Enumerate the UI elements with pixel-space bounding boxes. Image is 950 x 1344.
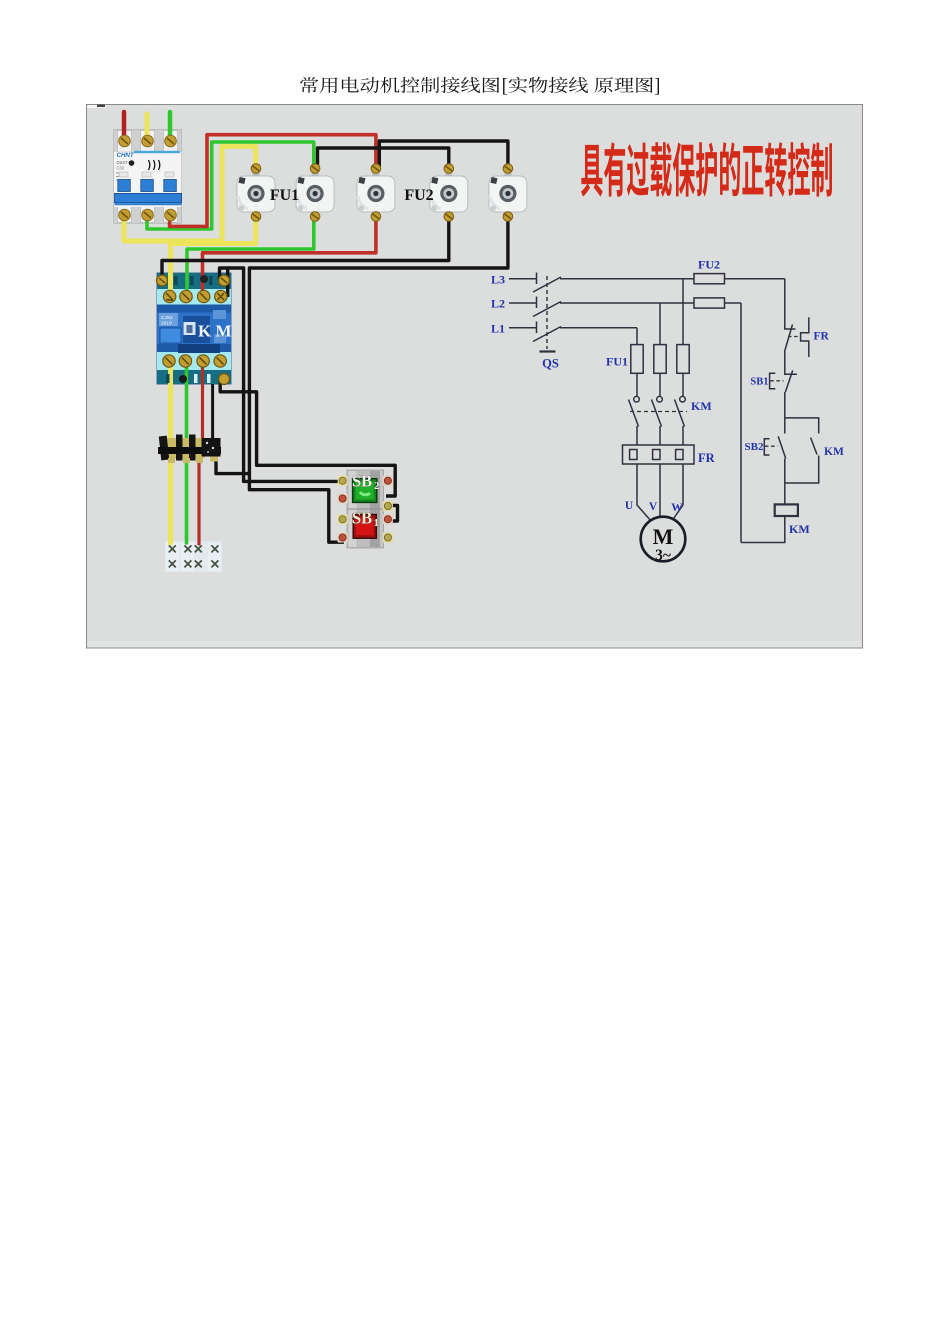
fuse FU1-2 body xyxy=(296,173,334,213)
breaker switch handles xyxy=(115,172,182,204)
wires KM contacts to FR xyxy=(636,426,638,464)
wire L2 control return xyxy=(740,303,742,543)
wire L2 row xyxy=(560,302,741,304)
wire black contactor top jumper staple xyxy=(220,268,228,297)
fuse FU2-3 screws xyxy=(503,164,513,222)
svg-text:SB: SB xyxy=(352,509,372,528)
svg-text:SB: SB xyxy=(352,472,372,491)
switch QS pole L1 xyxy=(536,322,538,334)
branch to KM aux contact xyxy=(785,418,819,434)
wire L1 drop xyxy=(636,328,638,345)
contactor bottom strip details xyxy=(166,374,230,385)
svg-text:1: 1 xyxy=(374,517,380,529)
switch QS linkage xyxy=(546,276,548,349)
stop button SB1 red xyxy=(352,509,379,539)
breaker top terminal screws xyxy=(119,135,177,147)
push button station panel xyxy=(347,470,384,548)
wire L1 row xyxy=(560,327,637,329)
fuse FU2-2 body xyxy=(430,173,468,213)
svg-text:SB2: SB2 xyxy=(745,441,764,453)
wire L1 lead xyxy=(509,327,536,329)
circuit breaker QF body xyxy=(114,130,182,224)
wire red fuse FU2-1 bottom to contactor KM terminal 3 xyxy=(203,213,376,297)
svg-text:3~: 3~ xyxy=(655,547,671,564)
fuse FU1-2 screws xyxy=(310,164,320,222)
start button SB2 green xyxy=(352,472,380,503)
svg-text:FU2: FU2 xyxy=(404,187,433,204)
wire green fuse FU1-2 bottom to contactor KM terminal 2 xyxy=(187,213,314,297)
wire L3 drop xyxy=(682,279,684,345)
button terminals xyxy=(338,476,393,543)
wire L3 lead xyxy=(509,278,536,280)
svg-text:SB1: SB1 xyxy=(750,377,768,388)
svg-text:M: M xyxy=(653,524,674,549)
motor M circle xyxy=(641,517,686,562)
svg-text:L3: L3 xyxy=(491,273,505,287)
wire green contactor to terminal block xyxy=(185,365,189,543)
svg-text:C60: C60 xyxy=(117,166,125,171)
fuse FU2 schematic top xyxy=(694,274,725,284)
fuse FU2 schematic bottom xyxy=(694,298,725,308)
page title 常用电动机控制接线图[实物接线 原理图] xyxy=(300,77,659,95)
panel bottom light strip xyxy=(87,641,862,648)
wire black contactor bottom to relay box xyxy=(211,384,214,440)
button SB1 stop xyxy=(770,373,776,388)
coil KM xyxy=(775,504,798,516)
svg-text:FU2: FU2 xyxy=(698,258,720,272)
terminal block XT xyxy=(165,541,222,572)
red banner 具有过载保护的正转控制 xyxy=(581,142,832,197)
contact KM auxiliary xyxy=(811,438,817,455)
thermal relay FR heater box xyxy=(623,445,695,464)
switch QS pole L2 xyxy=(536,297,538,309)
wire yellow contactor to terminal block xyxy=(168,365,173,543)
contactor second row screws xyxy=(163,290,227,302)
svg-text:K M: K M xyxy=(198,322,232,341)
image panel background xyxy=(87,105,863,649)
wire black fuse FU2-2 bottom to contactor coil terminal xyxy=(162,213,449,281)
wire L2 drop xyxy=(659,303,661,345)
wire red contactor to terminal block xyxy=(199,365,203,544)
wire green breaker T2 to fuse FU1-2 top xyxy=(147,142,314,229)
svg-text:CHNT: CHNT xyxy=(117,152,135,159)
wire SB2 to coil xyxy=(784,458,786,504)
svg-text:KM: KM xyxy=(824,446,844,458)
wire black contactor to start button SB2 left xyxy=(228,268,345,481)
switch QS pole L3 xyxy=(536,273,538,285)
svg-text:FU1: FU1 xyxy=(606,355,628,369)
wire black jumper fuse FU2-1 top to fuse FU2-3 top xyxy=(379,141,508,168)
svg-text:FU1: FU1 xyxy=(270,187,299,204)
wires FR to motor xyxy=(637,464,652,522)
panel top-left white notch xyxy=(87,105,106,108)
fuse FU1-1 body xyxy=(237,173,275,213)
wire coil bottom return xyxy=(741,516,785,543)
wire SB1 to junction xyxy=(784,392,786,434)
wire black fuse FU2-3 bottom down to stop button SB1 xyxy=(249,213,508,542)
svg-text:FR: FR xyxy=(698,451,716,465)
wire yellow fuse FU1-1 bottom to contactor KM terminal 1 xyxy=(171,213,256,297)
wire yellow input to breaker xyxy=(145,114,150,142)
button SB2 start xyxy=(764,439,769,455)
wire black jumper fuse FU1-2 top to fuse FU2-2 top xyxy=(318,148,449,168)
contact KM phase2 xyxy=(657,396,663,402)
wire black button jumper SB2 to SB1 xyxy=(386,506,398,522)
svg-text:KM: KM xyxy=(691,399,712,413)
wire red breaker T3 to fuse FU2-1 top xyxy=(170,135,376,227)
svg-text:U: U xyxy=(625,500,634,512)
breaker bottom terminal screws xyxy=(119,209,177,221)
wires fuse to KM contacts xyxy=(636,373,638,396)
svg-text:2: 2 xyxy=(374,480,380,492)
contact KM phase3 xyxy=(680,396,686,402)
thermal relay FR (photo) xyxy=(158,435,221,464)
svg-text:V: V xyxy=(649,501,658,513)
svg-text:CJX2: CJX2 xyxy=(161,315,173,321)
wire green input to breaker xyxy=(168,112,173,142)
wire L3 row xyxy=(560,278,785,280)
wire red input to breaker xyxy=(122,112,127,142)
KM contact linkage xyxy=(630,411,687,413)
fuse FU2-1 body xyxy=(357,173,395,213)
fuse FU1 schematic phase1 xyxy=(631,345,643,374)
fuse FU2-3 body xyxy=(489,173,527,213)
svg-text:L1: L1 xyxy=(491,322,505,336)
contactor bottom row screws xyxy=(163,355,227,367)
svg-text:KM: KM xyxy=(789,522,810,536)
contact FR normally-closed xyxy=(785,325,793,351)
svg-text:W: W xyxy=(671,502,683,514)
contact KM phase1 xyxy=(634,396,640,402)
wire black contactor bottom to start button SB2 right xyxy=(220,380,395,496)
contactor KM body xyxy=(157,273,232,384)
fuse FU1 schematic phase2 xyxy=(654,345,666,374)
svg-text:FR: FR xyxy=(814,331,830,343)
svg-text:L2: L2 xyxy=(491,297,505,311)
fuse FU1 schematic phase3 xyxy=(677,345,689,374)
wire black thermal relay FR to junction xyxy=(216,458,249,474)
wire yellow breaker T1 to fuse FU1-1 top xyxy=(124,146,256,241)
fuse FU2-2 screws xyxy=(444,164,454,222)
control branch vertical from L3 xyxy=(785,279,796,329)
wire L2 lead xyxy=(509,302,536,304)
fuse FU1-1 screws xyxy=(251,164,261,222)
contactor top row screws xyxy=(157,275,230,286)
svg-text:2610: 2610 xyxy=(161,321,172,327)
wire FR to SB1 xyxy=(785,350,797,374)
fuse FU2-1 screws xyxy=(371,164,381,222)
svg-text:QS: QS xyxy=(542,357,559,371)
breaker CHNT label and markings xyxy=(116,151,180,180)
